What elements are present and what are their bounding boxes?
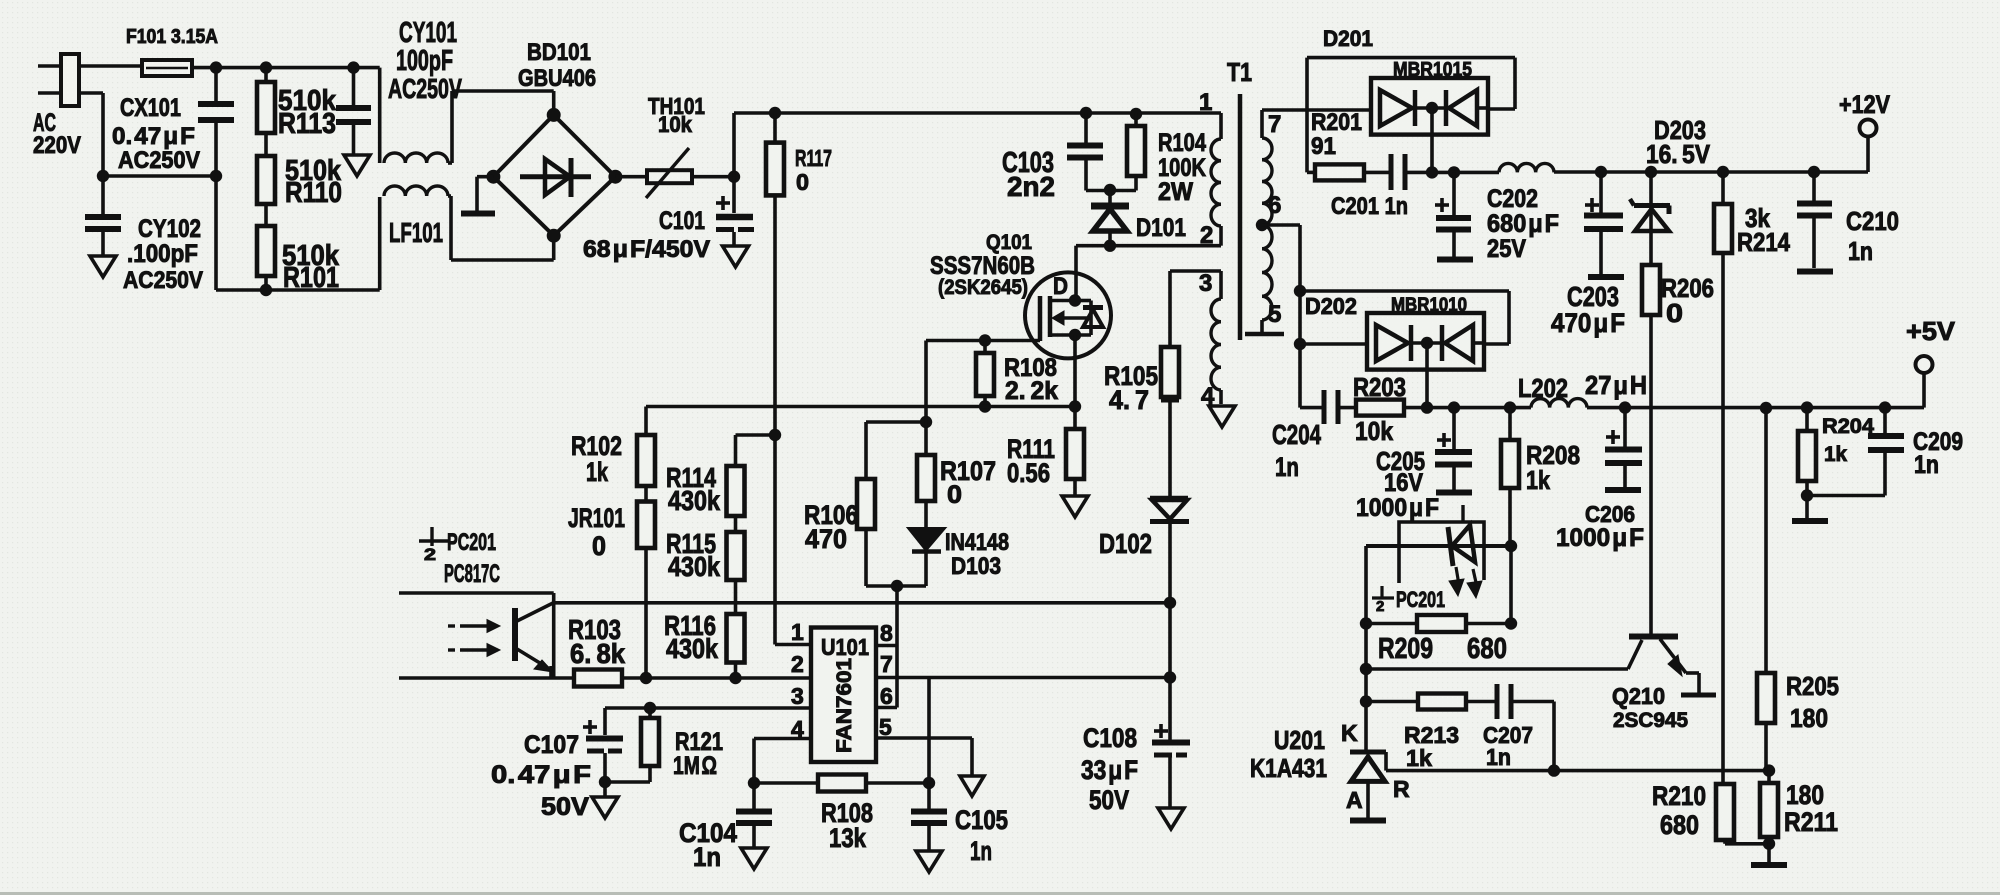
svg-text:MBR1010: MBR1010 [1391, 295, 1467, 316]
svg-text:33 μ F: 33 μ F [1081, 755, 1138, 785]
terminal +12V [1839, 91, 1890, 137]
svg-text:1n: 1n [1848, 236, 1873, 266]
svg-text:D202: D202 [1305, 293, 1357, 319]
svg-text:2: 2 [791, 651, 804, 677]
resistor R201 91 [1307, 109, 1364, 180]
node D103 bottom [891, 580, 903, 592]
svg-text:1000 μ F: 1000 μ F [1556, 524, 1644, 552]
resistor R105 4.7 [1104, 271, 1179, 415]
node D101 anode [1104, 240, 1116, 252]
svg-text:R203: R203 [1353, 372, 1406, 402]
capacitor C209 1n [1807, 408, 1963, 496]
svg-text:8: 8 [880, 620, 893, 646]
svg-text:R204: R204 [1822, 415, 1874, 438]
shunt regulator U201 K1A431 [1250, 720, 1410, 818]
inductor L202 27uH [1518, 370, 1647, 408]
svg-text:5: 5 [1268, 301, 1281, 328]
resistor R211 180 [1760, 771, 1838, 844]
transformer T1 core [1227, 57, 1252, 340]
node C105 top [923, 777, 935, 789]
resistor R106 470 [804, 422, 926, 586]
svg-text:D102: D102 [1099, 528, 1152, 559]
svg-text:PC201: PC201 [447, 529, 496, 556]
svg-text:1M Ω: 1M Ω [673, 752, 717, 780]
svg-text:6: 6 [880, 683, 893, 709]
svg-text:R205: R205 [1786, 671, 1839, 701]
node R113 top [260, 61, 272, 73]
wire +5V rail [1587, 374, 1924, 408]
svg-text:1n: 1n [1486, 744, 1511, 770]
svg-text:R210: R210 [1652, 781, 1706, 811]
diode D102 [1099, 400, 1189, 740]
wire LF101 bottom to bridge [448, 196, 554, 260]
svg-text:27 μ H: 27 μ H [1585, 370, 1647, 400]
svg-text:C108: C108 [1083, 723, 1137, 753]
svg-text:16V: 16V [1384, 469, 1423, 497]
wire T1 pin6 branch [1262, 225, 1300, 408]
wire AC line-1 rail [192, 66, 380, 70]
transistor Q101 SSS7N60B [930, 231, 1111, 358]
svg-text:1n: 1n [1275, 452, 1299, 482]
svg-text:1k: 1k [586, 457, 609, 487]
node C107 bottom [599, 776, 611, 788]
transistor Q210 2SC945 [1612, 637, 1716, 733]
svg-text:BD101: BD101 [527, 39, 591, 66]
diode D101 [1091, 191, 1186, 246]
svg-text:AC250V: AC250V [118, 147, 200, 174]
ground C206 [1605, 487, 1641, 493]
svg-text:R117: R117 [795, 145, 832, 171]
svg-text:220V: 220V [33, 132, 81, 159]
node R205 top [1760, 402, 1772, 414]
capacitor C205 1000uF 16V [1356, 408, 1472, 522]
wire R214 to R210 [1721, 253, 1725, 784]
svg-text:F101 3.15A: F101 3.15A [126, 26, 218, 48]
svg-text:2: 2 [1200, 222, 1213, 249]
svg-text:IN4148: IN4148 [945, 529, 1009, 556]
svg-text:430k: 430k [666, 633, 718, 664]
svg-text:7: 7 [1268, 111, 1281, 138]
node R108 top [979, 334, 991, 346]
wire Q101 source rail [646, 335, 1075, 435]
svg-text:50V: 50V [541, 793, 589, 821]
node R204 top [1801, 401, 1813, 413]
fuse F101 3.15A [126, 26, 218, 76]
node D201 output [1426, 166, 1460, 178]
svg-text:R209: R209 [1378, 633, 1433, 665]
svg-text:4. 7: 4. 7 [1109, 385, 1149, 415]
node C104 top [748, 777, 760, 789]
svg-text:68 μ F/450V: 68 μ F/450V [583, 236, 710, 263]
wire T1 pin7 to D201 [1262, 108, 1371, 112]
svg-text:.100pF: .100pF [127, 240, 198, 268]
svg-text:10k: 10k [1355, 416, 1393, 446]
node LED right [1505, 540, 1517, 552]
bridge rectifier BD101 GBU406 [486, 39, 622, 243]
svg-text:JR101: JR101 [568, 503, 625, 533]
resistor R108 13k [754, 775, 929, 854]
resistor R116 430k [664, 580, 745, 678]
node R116 bottom [729, 672, 741, 684]
svg-text:A: A [1346, 787, 1363, 813]
wire LF101 top to bridge [448, 91, 554, 163]
svg-text:1: 1 [1199, 89, 1212, 116]
zener diode D203 16.5V [1630, 115, 1711, 265]
capacitor C204 1n [1272, 390, 1356, 482]
svg-text:6: 6 [1268, 192, 1281, 219]
svg-text:91: 91 [1311, 133, 1336, 160]
node collector rail D102 [1164, 597, 1176, 609]
capacitor C104 1n [679, 783, 772, 872]
svg-text:1000 μ F: 1000 μ F [1356, 494, 1439, 522]
resistor R103 6.8k [568, 614, 625, 687]
node ref R211 [1763, 764, 1775, 776]
resistor R102 1k [571, 431, 655, 487]
node C207 ref [1548, 764, 1560, 776]
svg-text:0: 0 [592, 531, 606, 561]
svg-text:0: 0 [1666, 298, 1683, 328]
capacitor CY102 100pF Y-cap [85, 176, 203, 294]
ground C105 [916, 851, 942, 872]
svg-text:2n2: 2n2 [1007, 171, 1055, 202]
svg-text:3: 3 [1199, 270, 1212, 297]
wire HV+ rail [734, 113, 1221, 177]
svg-text:10k: 10k [658, 112, 693, 137]
svg-text:R201: R201 [1311, 109, 1362, 136]
svg-text:R113: R113 [278, 108, 336, 140]
svg-text:CX101: CX101 [120, 94, 181, 122]
transformer T1 primary 1-2 [1199, 89, 1221, 249]
node pin7 rail D102 [1164, 671, 1176, 683]
svg-text:LF101: LF101 [389, 217, 443, 248]
resistor R205 180 [1757, 408, 1839, 771]
svg-text:0: 0 [796, 169, 809, 195]
resistor R117 0 [766, 113, 832, 195]
transformer T1 secondary 7-6-5 [1245, 110, 1284, 334]
svg-text:+12V: +12V [1839, 91, 1890, 119]
ground C210 [1797, 269, 1833, 275]
node JR101 bottom [640, 672, 652, 684]
svg-text:1k: 1k [1526, 465, 1550, 495]
svg-text:1k: 1k [1824, 443, 1847, 466]
ground R210 R211 [1751, 844, 1787, 865]
node R214 top [1717, 166, 1729, 178]
svg-text:680: 680 [1660, 810, 1699, 840]
ground CY102 [90, 256, 116, 277]
svg-text:0: 0 [947, 481, 962, 509]
wire Q210 base rail [1366, 640, 1642, 669]
wire Q101 gate [926, 339, 1040, 343]
capacitor C108 33uF 50V [1081, 723, 1190, 815]
svg-text:D101: D101 [1136, 214, 1186, 242]
resistor R108 2.2k [976, 341, 1058, 407]
resistor R208 1k [1501, 408, 1580, 546]
capacitor C101 68uF/450V [583, 177, 754, 263]
node D202 corners [1294, 285, 1306, 350]
node source R111 [1069, 400, 1081, 412]
node R101 bottom [260, 284, 272, 296]
ground CY101 [344, 155, 370, 176]
node R209 ends [1360, 617, 1517, 629]
wire opto collector rail [554, 601, 1170, 605]
wire +12V rail [1554, 137, 1868, 172]
resistor R110 510k [257, 133, 342, 209]
svg-text:Q101: Q101 [986, 231, 1032, 254]
node R104 top [1130, 108, 1142, 120]
svg-text:430k: 430k [668, 485, 720, 516]
svg-text:50V: 50V [1089, 785, 1129, 815]
node D101 top [1104, 184, 1116, 196]
svg-text:2: 2 [1376, 598, 1384, 615]
svg-text:AC250V: AC250V [123, 267, 203, 294]
node CX101 top [210, 61, 222, 73]
svg-text:D201: D201 [1323, 26, 1373, 51]
svg-text:16. 5V: 16. 5V [1646, 139, 1711, 169]
svg-text:+5V: +5V [1906, 316, 1956, 346]
svg-text:U201: U201 [1274, 725, 1325, 755]
diode D202 MBR1010 [1300, 291, 1509, 408]
resistor R101 510k [257, 204, 340, 294]
resistor R107 0 [917, 341, 996, 510]
resistor R214 3k [1714, 172, 1790, 257]
svg-text:R211: R211 [1784, 807, 1838, 837]
wire R117 to U101 pin1 [775, 195, 811, 644]
resistor R113 510k [257, 68, 337, 140]
node R211 bottom [1763, 838, 1775, 850]
AC input connector [33, 54, 142, 159]
resistor R203 10k [1353, 372, 1427, 446]
node C101 top [728, 171, 740, 183]
svg-text:3: 3 [791, 683, 804, 709]
ground C202 [1437, 257, 1473, 263]
node C203 top [1595, 166, 1607, 178]
svg-text:R214: R214 [1737, 227, 1790, 257]
wire +5V pre-filter [1427, 406, 1531, 410]
wire AC line-2 [103, 93, 216, 176]
svg-text:470 μ F: 470 μ F [1551, 308, 1625, 338]
svg-text:PC201: PC201 [1396, 587, 1445, 612]
node R117 top [769, 107, 781, 119]
svg-text:C204: C204 [1272, 419, 1321, 450]
svg-text:470: 470 [805, 524, 847, 554]
resistor JR101 0 jumper [568, 486, 655, 678]
svg-text:(2SK2645): (2SK2645) [938, 276, 1028, 299]
svg-text:R110: R110 [285, 177, 342, 209]
svg-text:R104: R104 [1158, 129, 1206, 157]
svg-text:L202: L202 [1518, 373, 1568, 403]
inductor L201 [1432, 163, 1554, 172]
svg-text:MBR1015: MBR1015 [1393, 59, 1472, 81]
node C103 top [1080, 107, 1092, 119]
ground C108 [1158, 808, 1184, 829]
svg-text:C201 1n: C201 1n [1331, 193, 1408, 220]
svg-text:180: 180 [1786, 780, 1824, 810]
capacitor C206 1000uF [1556, 408, 1644, 552]
node C209 top [1879, 401, 1891, 413]
resistor R213 1k [1366, 694, 1466, 772]
U101 pin numbers [791, 619, 893, 742]
node R108 bottom [979, 400, 991, 412]
wire TL431 ref rail [1386, 769, 1769, 773]
svg-text:1n: 1n [1914, 451, 1939, 479]
svg-text:U101: U101 [821, 634, 869, 660]
wire R103 rail to pin2 [622, 676, 811, 680]
node C210 top [1808, 166, 1820, 178]
resistor R104 100K 2W [1127, 113, 1206, 206]
resistor R111 0.56 [1007, 407, 1084, 497]
svg-text:C210: C210 [1846, 206, 1899, 236]
ground U201 [1350, 818, 1386, 824]
wire T1 pin2 line [1076, 246, 1221, 299]
ground C101 [723, 246, 749, 267]
svg-text:25V: 25V [1487, 235, 1526, 263]
capacitor C207 1n [1466, 684, 1554, 771]
svg-text:430k: 430k [668, 551, 720, 582]
capacitor CX101 0.47uF X-cap [112, 68, 234, 176]
node AC line-2 junction [97, 170, 222, 182]
resistor R114 430k [666, 429, 781, 516]
svg-text:6. 8k: 6. 8k [570, 638, 625, 669]
resistor R210 680 [1652, 781, 1769, 844]
svg-text:7: 7 [880, 651, 893, 677]
ground C107 [592, 782, 618, 818]
svg-text:GBU406: GBU406 [518, 65, 596, 92]
resistor R209 680 [1366, 546, 1511, 752]
wire U101 pin7 rail [876, 678, 1170, 784]
svg-text:5: 5 [879, 714, 892, 740]
wire U101 pin5 [876, 738, 972, 776]
node C206 top [1619, 401, 1631, 413]
svg-text:2W: 2W [1158, 178, 1193, 206]
thermistor TH101 10k [615, 93, 734, 198]
svg-text:C202: C202 [1487, 185, 1538, 213]
capacitor C203 470uF [1551, 172, 1625, 338]
optocoupler PC201 phototransistor [399, 527, 574, 678]
svg-text:C101: C101 [659, 207, 705, 235]
transformer T1 aux 3-4 [1170, 270, 1221, 410]
optocoupler PC201 LED [1366, 522, 1511, 615]
svg-text:680: 680 [1467, 633, 1507, 665]
capacitor C107 0.47uF 50V [491, 708, 650, 821]
svg-text:R: R [1393, 776, 1410, 802]
svg-text:2: 2 [424, 545, 436, 564]
svg-text:0.56: 0.56 [1007, 458, 1050, 488]
node D202 output [1421, 401, 1516, 413]
node R121 top [644, 702, 656, 714]
svg-text:180: 180 [1790, 703, 1828, 733]
ground bridge negative [461, 177, 495, 214]
node R107 top [920, 416, 932, 428]
resistor R204 1k [1798, 408, 1874, 496]
svg-text:1: 1 [791, 619, 804, 645]
svg-text:K: K [1341, 720, 1358, 746]
node R204 bottom [1801, 489, 1813, 501]
svg-text:CY102: CY102 [138, 215, 201, 243]
capacitor C105 1n [911, 783, 1008, 866]
ground R111 [1062, 496, 1088, 517]
svg-text:0. 47 μ F: 0. 47 μ F [491, 761, 591, 789]
svg-text:D: D [1053, 273, 1068, 300]
svg-text:D103: D103 [951, 553, 1001, 580]
svg-text:R101: R101 [283, 262, 339, 294]
resistor R115 430k [666, 516, 745, 582]
capacitor CY101 100pF Y-cap [336, 17, 462, 155]
resistor R206 0 [1642, 265, 1714, 634]
svg-text:2SC945: 2SC945 [1613, 709, 1688, 732]
svg-text:1k: 1k [1406, 745, 1432, 771]
svg-text:0. 47 μ F: 0. 47 μ F [112, 123, 195, 150]
svg-text:PC817C: PC817C [444, 560, 500, 588]
wire U101 pin3 [605, 706, 811, 710]
capacitor C210 1n [1797, 172, 1899, 268]
node D203 top [1645, 166, 1657, 178]
svg-text:T1: T1 [1227, 57, 1252, 87]
capacitor C202 680uF 25V [1435, 172, 1559, 263]
ground R204 [1792, 496, 1828, 522]
svg-text:Q210: Q210 [1612, 683, 1665, 709]
wire to U101 pins 8/6 [876, 586, 897, 708]
ground pin5 [960, 776, 984, 796]
svg-text:FAN7601: FAN7601 [833, 658, 856, 753]
wire lower-left rail [216, 176, 380, 290]
resistor R121 1M [641, 708, 723, 782]
node T1 tap pin6 [1256, 219, 1268, 231]
svg-text:C107: C107 [524, 731, 579, 759]
ground C205 [1436, 493, 1472, 522]
svg-text:1n: 1n [693, 842, 721, 872]
inductor LF101 [380, 68, 448, 248]
diode D103 IN4148 [866, 501, 1009, 586]
node R213 rail [1360, 695, 1372, 707]
svg-text:1n: 1n [970, 836, 992, 866]
wire U101 pin4 [754, 739, 811, 784]
svg-text:680 μ F: 680 μ F [1487, 210, 1559, 238]
svg-text:2. 2k: 2. 2k [1005, 377, 1058, 405]
ground C203 [1588, 274, 1624, 280]
ground C104 [741, 848, 767, 869]
terminal +5V [1906, 316, 1956, 373]
svg-text:C105: C105 [955, 805, 1008, 835]
svg-text:K1A431: K1A431 [1250, 753, 1327, 783]
capacitor C103 2n2 [1002, 113, 1136, 202]
capacitor C201 1n [1331, 154, 1432, 220]
diode D201 MBR1015 [1307, 26, 1515, 172]
controller U101 FAN7601 [811, 628, 876, 763]
node CY101 top [347, 61, 359, 73]
svg-text:13k: 13k [829, 823, 867, 853]
ground T1 pin4 [1209, 406, 1235, 427]
node Q210 base rail [1360, 663, 1372, 675]
